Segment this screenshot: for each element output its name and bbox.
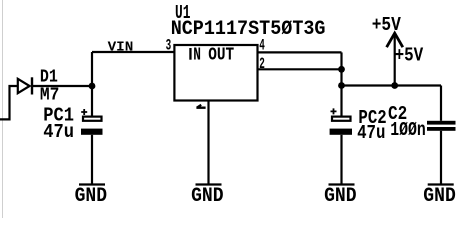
wire junction up — [91, 52, 93, 86]
wire pin4 — [258, 51, 342, 53]
node out pin2 — [338, 66, 345, 73]
svg-text:M7: M7 — [40, 84, 60, 105]
svg-text:GND: GND — [324, 185, 357, 208]
supply +5V arrow — [387, 33, 403, 85]
svg-text:VIN: VIN — [108, 40, 134, 56]
diode D1 — [18, 77, 32, 94]
node out tee — [338, 82, 345, 89]
wire diode to junction — [32, 85, 92, 87]
regulator U1 body — [174, 45, 257, 101]
svg-text:GND: GND — [191, 185, 224, 208]
svg-text:N: N — [193, 45, 201, 66]
wire PC1 top — [91, 86, 93, 116]
node +5V junction — [391, 82, 398, 89]
node junction VIN — [89, 83, 96, 90]
svg-text:NCP1117ST5ØT3G: NCP1117ST5ØT3G — [171, 18, 326, 41]
left edge artifact line — [2, 0, 4, 218]
ground 1 — [75, 185, 108, 209]
svg-text:47u: 47u — [357, 122, 385, 144]
capacitor PC1 — [81, 109, 103, 135]
wire pin1 down — [207, 101, 209, 185]
wire C2 bottom — [440, 131, 442, 184]
wire PC2 bottom — [340, 135, 342, 184]
ground 2 — [191, 185, 224, 209]
svg-text:OUT: OUT — [208, 45, 234, 66]
capacitor C2 — [427, 121, 456, 131]
svg-text:1ØØn: 1ØØn — [390, 119, 426, 141]
svg-text:+5V: +5V — [395, 45, 424, 67]
svg-text:GND: GND — [423, 185, 456, 208]
capacitor PC2 — [330, 108, 352, 134]
wire input stub left — [0, 86, 17, 119]
svg-text:GND: GND — [75, 185, 108, 208]
wire C2 top — [440, 86, 442, 121]
ground 3 — [324, 185, 357, 209]
wire pin2 — [258, 68, 342, 70]
wire VIN to pin3 — [92, 51, 174, 53]
pin number 1 rotated — [196, 105, 205, 108]
svg-text:+5V: +5V — [372, 14, 402, 36]
ground 4 — [423, 185, 456, 209]
wire +5V rail — [342, 84, 442, 86]
wire out vertical — [340, 52, 342, 115]
svg-text:47u: 47u — [43, 121, 74, 143]
wire PC1 bottom — [91, 135, 93, 184]
label IN — [189, 45, 201, 66]
